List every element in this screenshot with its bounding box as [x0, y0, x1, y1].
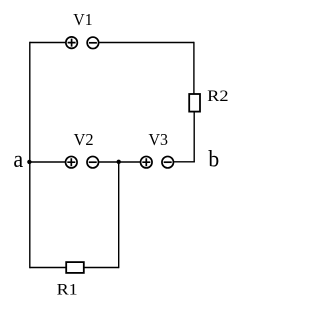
svg-text:V1: V1	[73, 10, 92, 29]
node a dot	[27, 160, 31, 164]
voltage source V3 plus terminal	[141, 156, 153, 168]
svg-text:b: b	[208, 147, 219, 172]
wire: bottom horizontal from bottom-left corner to resistor R1 left	[30, 267, 66, 269]
wire: bottom horizontal from resistor R1 right to bottom-right corner	[84, 267, 118, 269]
voltage source V1 minus terminal	[87, 37, 99, 49]
wire: top-left horizontal from left corner to V1 plus terminal	[30, 42, 65, 44]
svg-text:V2: V2	[74, 130, 94, 149]
wire: left vertical rail from top corner through node a to bottom corner	[29, 42, 31, 268]
svg-text:R2: R2	[207, 87, 228, 105]
svg-text:a: a	[13, 146, 23, 173]
wire: middle horizontal from V2 plus terminal to node a	[30, 161, 65, 163]
junction dot between V2 and V3	[117, 160, 121, 164]
wire: vertical from junction down to bottom-right corner	[118, 162, 120, 268]
svg-text:R1: R1	[57, 280, 78, 298]
wire: horizontal from corner near node b left to V3 minus terminal	[174, 161, 195, 163]
wire: middle horizontal from V3 plus terminal to junction	[119, 161, 141, 163]
wire: right vertical from top-right corner down to resistor R2 top	[193, 42, 195, 94]
voltage source V2 minus terminal	[87, 156, 99, 168]
wire: right vertical from resistor R2 bottom down to corner near node b	[193, 112, 195, 162]
wire: top horizontal from V1 minus terminal to top-right corner	[99, 42, 194, 44]
voltage source V3 minus terminal	[162, 156, 174, 168]
voltage source V2 plus terminal	[66, 156, 78, 168]
resistor R2	[189, 94, 200, 112]
wire: middle horizontal from junction to V2 minus terminal	[99, 161, 119, 163]
resistor R1	[66, 262, 84, 273]
svg-text:V3: V3	[149, 130, 169, 149]
voltage source V1 plus terminal	[66, 37, 78, 49]
